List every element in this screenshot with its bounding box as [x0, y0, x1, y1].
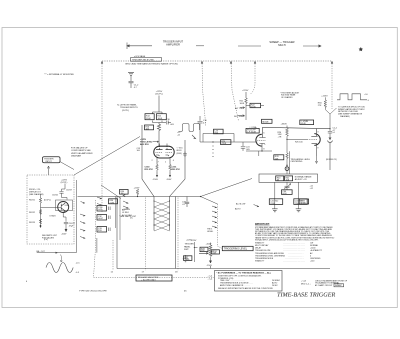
- vacuum tube V24A (half envelope): [256, 134, 262, 146]
- svg-text:IMPORTANT:: IMPORTANT:: [255, 223, 270, 226]
- wire: hold-off junction: [325, 110, 330, 129]
- svg-text:6TN23: 6TN23: [50, 216, 57, 218]
- source switch shaft 2 dashed: [112, 240, 114, 271]
- trimmer label box C40: [282, 190, 293, 195]
- svg-text:2.2M: 2.2M: [110, 202, 115, 204]
- trigger waveform sketch: [179, 124, 200, 139]
- label box slope sens: [299, 199, 308, 205]
- svg-text:100K: 100K: [240, 103, 245, 105]
- svg-text:SEE ALSO IMPORTANT NOTE AB: SEE ALSO IMPORTANT NOTE ABOVE FOR THE CO…: [218, 287, 273, 290]
- value label C34: [182, 201, 187, 205]
- svg-text:.0047: .0047: [98, 218, 104, 220]
- switch lattice wiring: [154, 201, 170, 231]
- resistor R22: [250, 103, 261, 108]
- svg-text:-150V: -150V: [166, 179, 172, 181]
- power label +225V (DCPL) in plug-in: [61, 179, 68, 183]
- svg-text:+350V: +350V: [281, 124, 288, 126]
- svg-text:CENTERING: CENTERING: [291, 161, 303, 163]
- junction on bus: [137, 196, 138, 197]
- svg-text:-150V: -150V: [61, 234, 67, 236]
- wire: +225V drop right: [324, 97, 326, 100]
- switch shaft dashed left: [145, 198, 147, 271]
- svg-text:GRID LEAD TIME BASE (EXTENDED: GRID LEAD TIME BASE (EXTENDED RANGE OPTI…: [125, 62, 178, 65]
- reference star mark: [359, 47, 363, 51]
- svg-text:C6747: C6747: [66, 189, 73, 191]
- svg-text:MULT DISPLAY: MULT DISPLAY: [255, 244, 269, 247]
- pot label: TRIG. LEVEL ADJ R18: [140, 139, 159, 146]
- svg-text:R6743: R6743: [29, 222, 36, 224]
- value label C24: [246, 146, 251, 150]
- svg-text:+225V: +225V: [321, 95, 328, 97]
- V24A plate: [259, 127, 265, 137]
- value label C13: [137, 148, 142, 152]
- svg-text:NORMAL: NORMAL: [310, 244, 318, 247]
- resistor R14: [145, 114, 154, 120]
- junction: [286, 165, 287, 166]
- capacitor C15 on plate run: [183, 152, 187, 158]
- svg-text:C6742: C6742: [52, 194, 59, 196]
- wire: +350V drop: [286, 126, 288, 129]
- dashed drop wire at x=332: [331, 61, 333, 109]
- svg-text:STABILITY: STABILITY: [255, 260, 265, 263]
- svg-text:SWP: SWP: [184, 249, 189, 251]
- wire: R21 to R22: [246, 106, 250, 121]
- switch shaft dashed right: [177, 198, 179, 271]
- wire: V16A cathode lead: [156, 158, 158, 165]
- svg-text:ADJ R18: ADJ R18: [140, 143, 149, 146]
- supply arrow -150V right: [166, 172, 172, 181]
- resistor R15: [157, 114, 167, 120]
- note: for values of components: [71, 147, 93, 158]
- wire: to interconnect B: [286, 162, 288, 167]
- holdoff waveform sketch: [337, 94, 367, 100]
- dashed drop wire at x=255: [251, 61, 256, 94]
- svg-text:STABILITY: STABILITY: [255, 241, 265, 244]
- slope switch contacts: [212, 206, 217, 228]
- svg-text:20 MV: 20 MV: [272, 285, 278, 287]
- svg-text:*** = INTERNALLY MOUNTED: *** = INTERNALLY MOUNTED: [44, 73, 74, 76]
- plug-in unit dashed enclosure: [27, 175, 74, 244]
- svg-text:470K: 470K: [222, 143, 227, 145]
- wire: right plate run to coupling switch: [170, 140, 186, 197]
- svg-text:(DCPL): (DCPL): [61, 182, 68, 184]
- wire: pointer to note: [330, 108, 337, 114]
- wire: R22 to plate rail: [261, 105, 264, 107]
- svg-text:R6741: R6741: [29, 199, 36, 201]
- svg-text:(NORM CF): (NORM CF): [326, 159, 337, 161]
- switch position labels: [122, 209, 133, 220]
- svg-text:(SEE DIAGRAM): (SEE DIAGRAM): [29, 193, 44, 196]
- node label box: TRIGGER SELECTED: [125, 55, 178, 65]
- vacuum tube V16 (twin triode, stadium envelope): [154, 144, 174, 159]
- svg-text:CAL. OUT: CAL. OUT: [36, 250, 46, 253]
- svg-text:220K: 220K: [251, 106, 256, 108]
- svg-text:TYPE 545 OSCILLOSCOPE: TYPE 545 OSCILLOSCOPE: [79, 291, 107, 293]
- svg-text:+ C-4: + C-4: [208, 278, 213, 280]
- wire: base network: [41, 205, 62, 229]
- capacitor C6747: [63, 213, 68, 227]
- junction pot feed: [194, 247, 195, 248]
- value label C10: [203, 120, 208, 124]
- svg-text:. . . . . . . . . . . . . . .: . . . . . . . . . . . . . . . . . . . . …: [283, 261, 305, 263]
- note text: trig sens adjust: [280, 91, 300, 99]
- svg-text:R6742: R6742: [29, 212, 36, 214]
- svg-text:1M: 1M: [121, 193, 124, 195]
- label: SWEEP TRIGGER: [269, 40, 294, 47]
- dimension line left: trigger input amplifier: [127, 43, 204, 50]
- label box ext trig: [184, 256, 192, 261]
- component column C32: [97, 215, 110, 221]
- sine level labels: [76, 262, 81, 273]
- label: TRIGGER INPUT AMPLIFIER: [163, 40, 184, 47]
- curved pointer to sine: [60, 255, 62, 262]
- value label C1-2: [134, 85, 139, 90]
- svg-text:DELAY: DELAY: [255, 247, 262, 250]
- dashed interconnect rail bottom: [94, 277, 215, 279]
- svg-text:AMPLIFIER: AMPLIFIER: [166, 43, 180, 47]
- svg-text:100K: 100K: [158, 118, 163, 120]
- svg-text:(DCPL): (DCPL): [122, 110, 129, 112]
- svg-text:ADJUST +2V: ADJUST +2V: [295, 178, 308, 181]
- svg-text:+225V: +225V: [191, 240, 198, 242]
- svg-text:SENS: SENS: [300, 203, 306, 205]
- resistor R29: [136, 189, 139, 196]
- svg-text:TIME-BASE TRIGGER: TIME-BASE TRIGGER: [277, 292, 335, 299]
- divider label box R42: [269, 199, 282, 205]
- svg-text:VERTICAL AMPLIFIER: VERTICAL AMPLIFIER: [71, 152, 93, 155]
- wire: slanted feed to slope switch: [201, 179, 253, 197]
- wire: +225V feed to R14/R15: [158, 96, 160, 113]
- wire: box drop left: [274, 182, 276, 208]
- panel label box TRIGGERING LEVEL: [222, 246, 253, 250]
- wire: cal line: [37, 252, 77, 254]
- resistor R19: [145, 165, 159, 173]
- dashed drop wire at x=231: [231, 61, 239, 121]
- wire: arrow up to trigger input label: [47, 166, 49, 175]
- svg-text:C.F. 6DJ8: C.F. 6DJ8: [247, 132, 257, 134]
- socket contact dots: [212, 146, 215, 157]
- resistor R28: [274, 153, 289, 162]
- value label C6747: [69, 223, 76, 227]
- junction: [329, 128, 330, 129]
- svg-text:TRIGGERING LEVEL: TRIGGERING LEVEL: [224, 248, 248, 251]
- label: nominal range: [295, 175, 312, 180]
- V24B plate: [311, 129, 317, 137]
- switch wafer shaft dashed: [94, 200, 96, 278]
- svg-text:+ C-B: + C-B: [301, 280, 307, 282]
- note text: from plug-in: [29, 189, 44, 196]
- switch contact arrows AC/DC: [123, 201, 128, 208]
- V24A grid: [257, 140, 265, 142]
- capacitor C16: [159, 121, 171, 125]
- svg-text:+100V: +100V: [206, 243, 213, 245]
- wire: label to pickup diagonal: [60, 162, 74, 170]
- component column C33: [97, 227, 110, 233]
- svg-text:220K: 220K: [270, 203, 275, 205]
- svg-text:MODE: MODE: [263, 121, 270, 123]
- svg-text:-150V: -150V: [153, 179, 159, 181]
- calibrator sine waveform: [46, 263, 73, 273]
- svg-text:R25 100: R25 100: [295, 142, 303, 144]
- switch wafer contacts beside plug-in: [80, 197, 102, 239]
- svg-text:DIAGRAM): DIAGRAM): [340, 115, 350, 118]
- svg-text:+200: +200: [310, 261, 314, 263]
- dimension line right: sweep trigger: [238, 45, 321, 47]
- wire: V24A plate rail to V24B: [263, 127, 331, 128]
- wire: plug-in output column: [76, 180, 97, 253]
- capacitor C1-2 with ground: [128, 72, 134, 88]
- svg-text:+ SLOPE ONLY: + SLOPE ONLY: [141, 279, 156, 281]
- junction dot base: [40, 225, 42, 227]
- connector B: [285, 167, 289, 171]
- V24B cathode: [312, 143, 318, 156]
- bottom interconnect line: [117, 268, 330, 270]
- node label box: TRIGGER SELECTED +SLOPE: [136, 275, 172, 281]
- tube label V24B: [300, 119, 314, 125]
- coupling switch frame: [117, 197, 176, 269]
- pot label box R34: [212, 250, 220, 255]
- svg-text:MOD C-2 +: MOD C-2 +: [301, 283, 312, 285]
- svg-text:OF CHASSIS: OF CHASSIS: [281, 96, 293, 99]
- wire: diagonal from plug-in to coupling: [74, 137, 140, 176]
- svg-text:+WHEN: +WHEN: [123, 209, 131, 211]
- svg-text:INPUT: INPUT: [46, 161, 53, 163]
- capacitor C34: [185, 197, 189, 208]
- dashed drop wire at x=202: [202, 61, 206, 126]
- svg-text:(DCPL): (DCPL): [155, 94, 163, 96]
- wire: short diagonal to mode column: [201, 197, 218, 205]
- svg-text:AT CHART CIRCUIT: AT CHART CIRCUIT: [315, 284, 333, 287]
- wire: left plate run to coupling switch: [142, 125, 154, 197]
- ground left: [272, 209, 278, 212]
- wire: box drop right: [298, 182, 300, 208]
- labels +12: [310, 186, 314, 190]
- resistor R40: [276, 176, 284, 182]
- svg-text:LEVEL: LEVEL: [207, 231, 214, 233]
- slope switch shaft dashed: [217, 204, 219, 246]
- tube label V24A pickoff CF: [246, 125, 259, 134]
- lattice contact dots: [153, 200, 170, 225]
- resistor R6742: [29, 210, 42, 215]
- resistor R16: [145, 124, 161, 133]
- svg-text:+225V: +225V: [134, 188, 141, 190]
- note block settings list: [255, 241, 323, 262]
- transistor Q6742: [56, 200, 73, 213]
- pot label box LEVEL: [200, 247, 208, 252]
- gate output arrow with ground: [210, 266, 212, 269]
- trimmer capacitor C40: [284, 182, 291, 189]
- svg-text:AMPLITUDE CALIBRATOR . . . .: AMPLITUDE CALIBRATOR . . . . . .: [220, 284, 250, 287]
- dashed net rail (trigger selected line): [102, 60, 332, 62]
- label box panel: [184, 246, 191, 251]
- wire: column feeders: [116, 197, 121, 241]
- svg-text:ALT TRIG: ALT TRIG: [235, 107, 244, 110]
- level potentiometer R33: [199, 243, 212, 260]
- voltage conditions note box: [215, 271, 283, 292]
- svg-text:R20 27K: R20 27K: [172, 169, 181, 171]
- divider label box R43: [294, 199, 307, 205]
- resistor R6741: [29, 195, 51, 205]
- supply arrow -150V pot: [207, 260, 213, 268]
- component column C31: [97, 206, 110, 212]
- svg-text:AUTO: AUTO: [235, 208, 241, 211]
- capacitor C84 on holdoff line: [328, 129, 332, 137]
- wire: +225V drop: [245, 92, 247, 98]
- value label C16: [166, 119, 175, 126]
- svg-text:AC SLOW: AC SLOW: [236, 202, 245, 205]
- svg-text:DIAGRAM: DIAGRAM: [71, 154, 81, 157]
- supply arrow -150V left: [153, 172, 159, 181]
- junction grid node: [286, 139, 287, 140]
- ext contact arrow: [254, 205, 259, 207]
- svg-text:R19 27K: R19 27K: [145, 169, 154, 171]
- resistor R23: [214, 129, 224, 134]
- V24A cathode: [259, 143, 265, 151]
- dashed link to level knob: [218, 246, 223, 248]
- svg-text:SWEEP: SWEEP: [335, 285, 343, 287]
- svg-text:NOT USED: NOT USED: [234, 116, 245, 118]
- wire: B to range box: [286, 171, 288, 175]
- svg-text:MULTI: MULTI: [278, 43, 286, 47]
- svg-text:+TR: +TR: [278, 137, 282, 139]
- mode label box: [262, 119, 273, 123]
- interconnect socket arrow: [328, 137, 333, 171]
- svg-text:FOR VALUES OF: FOR VALUES OF: [71, 147, 88, 150]
- slope switch labels: [207, 202, 245, 232]
- svg-text:TRIGGER: TRIGGER: [185, 244, 195, 246]
- svg-text:+A STABILITY: +A STABILITY: [310, 249, 323, 252]
- switch contact NOT USED: [234, 115, 245, 118]
- resistor R26: [278, 128, 289, 139]
- wire: pot feed column: [194, 242, 197, 262]
- node label box: TRIGGER INPUT: [43, 157, 61, 163]
- svg-text:SIGNAL INPUT, USING A 20,0: SIGNAL INPUT, USING A 20,000 Ω/V VOM AND…: [255, 238, 319, 241]
- svg-text:150K: 150K: [146, 118, 151, 120]
- wire: R14/R15 split: [153, 112, 163, 124]
- wire: diagonal tap to bus: [101, 185, 121, 199]
- note text: see parts list: [42, 234, 58, 241]
- capacitor C6742 collector feed: [59, 184, 67, 200]
- note text: to front panel trigger: [117, 104, 138, 112]
- waveform level label: [177, 132, 181, 136]
- ground right: [296, 209, 302, 212]
- svg-text:(B16): (B16): [177, 153, 182, 155]
- resistor R84: [318, 100, 327, 110]
- circuit numbers note: [301, 279, 348, 287]
- resistor R41: [285, 176, 293, 182]
- svg-text:-150V: -150V: [207, 265, 213, 267]
- resistor R24: [221, 140, 231, 145]
- coupling switch rotor lines: [154, 197, 170, 231]
- wire: grid wire to V24B: [287, 138, 307, 140]
- wire: grid feed into V16: [158, 133, 160, 146]
- range network box: [259, 174, 318, 182]
- tube label V16 6DJ8: [177, 146, 184, 155]
- tiny connector refs left of note box: [208, 276, 213, 281]
- svg-text:TRIGGER SELECTED: TRIGGER SELECTED: [132, 59, 155, 61]
- capacitor C10 coupling: [198, 116, 203, 128]
- component box R36 on bus: [109, 199, 118, 205]
- switch contact ALT TRIG: [235, 107, 245, 110]
- power label +225V (DCPL): [155, 91, 163, 96]
- arrow junction at rail left: [101, 61, 103, 64]
- svg-text:47µF: 47µF: [69, 226, 74, 228]
- svg-text:(DCPL): (DCPL): [44, 199, 51, 201]
- svg-text:8: 8: [263, 148, 264, 150]
- svg-text:+ C-4: + C-4: [208, 276, 213, 278]
- wire: V24A cathode bus: [246, 151, 290, 174]
- value label C84: [333, 127, 338, 134]
- note block paragraph: [255, 226, 335, 242]
- svg-text:TRIGGERING LEVEL AND MODE: TRIGGERING LEVEL AND MODE: [255, 252, 285, 255]
- wire: main grid bus: [78, 196, 201, 198]
- V24B grid: [307, 139, 318, 141]
- resistor R6743: [29, 219, 42, 224]
- svg-text:To all FRONT PANEL: To all FRONT PANEL: [117, 104, 138, 107]
- wire: bus end junction: [200, 196, 201, 197]
- svg-text:* AC POWERWAVE — TO THE BASE R: * AC POWERWAVE — TO THE BASE READINGS — …: [217, 272, 272, 275]
- wire: V24B cathode down: [315, 156, 317, 164]
- resistor R21: [240, 98, 248, 106]
- wire: V16B cathode lead: [169, 158, 171, 165]
- dashed drop wire at x=102: [101, 61, 103, 212]
- svg-text:+225V: +225V: [242, 90, 249, 92]
- svg-text:3: 3: [317, 131, 318, 133]
- wire: grid loop around R23: [200, 128, 257, 142]
- waveform labels: [364, 94, 370, 102]
- capacitor C24: [241, 142, 245, 151]
- wire: R28 branch: [286, 139, 288, 153]
- resistor R30: [120, 190, 129, 197]
- power label trigger level column: [185, 239, 195, 245]
- svg-text:6: 6: [263, 132, 264, 134]
- svg-text:(P6): (P6): [44, 239, 48, 241]
- junction grid loop: [212, 141, 213, 142]
- ground at interconnect: [183, 255, 188, 262]
- svg-text:* SEE PARTS LIST: * SEE PARTS LIST: [119, 215, 137, 218]
- resistor R20: [169, 165, 181, 173]
- note text: to grid of sweep holdoff: [338, 106, 365, 118]
- label: triggering level centering: [291, 159, 311, 163]
- vacuum tube V24B (half envelope): [314, 134, 320, 146]
- junction cathode: [261, 150, 262, 151]
- arrow on cal line: [56, 252, 59, 254]
- supply arrow -150V plug-in: [61, 227, 67, 236]
- svg-text:9: 9: [317, 148, 318, 150]
